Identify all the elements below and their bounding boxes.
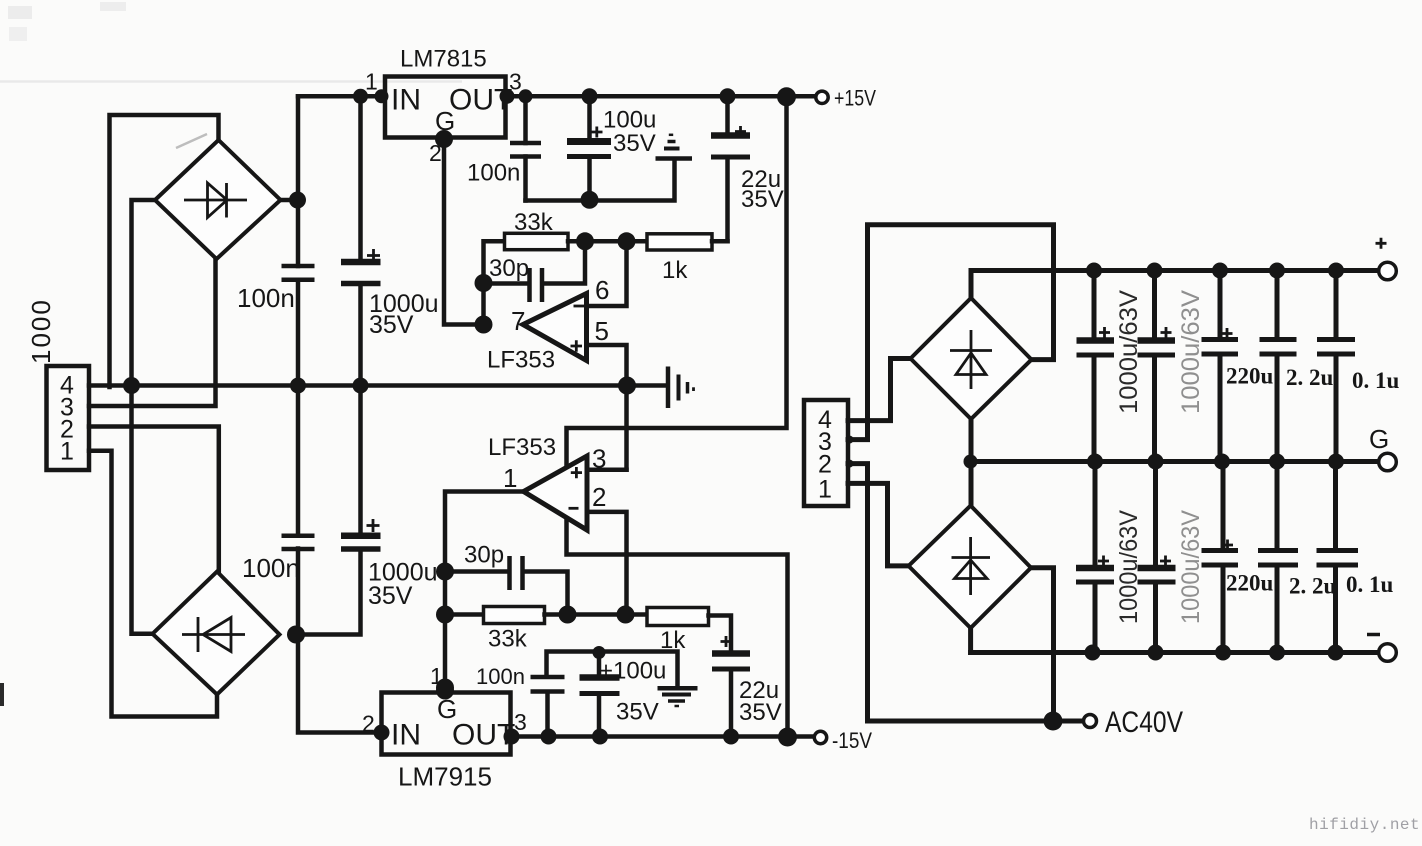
connector J1 box xyxy=(47,366,90,470)
svg-text:1000: 1000 xyxy=(26,298,56,364)
node U3 OUT pin xyxy=(504,729,520,745)
wire + rail xyxy=(971,268,1379,273)
wire bridge B2 to LM7915 IN xyxy=(298,635,382,733)
wire op-amp A pin5 to ground rail and pin3 of B xyxy=(587,345,627,470)
node OUT pin xyxy=(500,89,515,104)
node CB7 minus rail tap xyxy=(1148,645,1164,661)
svg-text:2: 2 xyxy=(592,482,606,512)
wire CB10 leads xyxy=(1333,462,1338,653)
wire op-amp B pin3 xyxy=(587,468,627,473)
svg-text:1000u/63V: 1000u/63V xyxy=(1115,510,1143,624)
svg-text:220u: 220u xyxy=(1226,571,1274,596)
capacitor C1 100n plates xyxy=(282,266,315,280)
capacitor CB6 plus sign xyxy=(1098,556,1109,567)
svg-text:G: G xyxy=(1369,424,1389,454)
svg-text:1: 1 xyxy=(60,438,74,466)
svg-text:1000u/63V: 1000u/63V xyxy=(1115,290,1143,414)
svg-text:1k: 1k xyxy=(662,257,688,284)
svg-text:35V: 35V xyxy=(368,582,413,610)
ground symbol inverted (bypass bus) xyxy=(656,156,693,161)
node 22u tap on -15V rail xyxy=(723,729,739,745)
diode inside B1 xyxy=(184,183,247,218)
wire bridge B4 bottom to minus rail xyxy=(968,628,973,653)
wire J1 pin1 to bridge B2 bottom corner xyxy=(89,451,217,717)
svg-text:2. 2u: 2. 2u xyxy=(1289,574,1337,599)
node 100u tap xyxy=(582,88,598,104)
svg-text:1: 1 xyxy=(365,69,378,95)
svg-text:LM7915: LM7915 xyxy=(398,762,492,792)
wire op-amp B output to LM7915 G xyxy=(445,492,524,693)
connector J2 box xyxy=(804,400,848,506)
capacitor CB1 1000u/63V plates xyxy=(1077,337,1115,344)
svg-text:30p: 30p xyxy=(489,255,529,282)
wire bridge B3 top corner to + rail xyxy=(969,271,974,299)
node CB9 minus rail tap xyxy=(1269,645,1285,661)
svg-text:35V: 35V xyxy=(369,311,414,339)
capacitor CB9 2.2u plates xyxy=(1258,551,1298,566)
svg-text:LF353: LF353 xyxy=(487,347,555,374)
svg-text:IN: IN xyxy=(391,84,421,117)
wire R1 to R2 xyxy=(568,239,647,244)
node C12 tap xyxy=(593,646,606,659)
wire bridge B4 right corner to AC40V node xyxy=(1031,568,1054,721)
svg-text:35V: 35V xyxy=(739,699,782,726)
wire op-amp B pin2 xyxy=(587,512,627,615)
node feedback 30p left xyxy=(475,274,493,292)
capacitor CB7 plus sign xyxy=(1160,556,1171,567)
wire CB3 leads xyxy=(1218,271,1223,462)
node R1-30p junction xyxy=(576,232,594,250)
svg-text:1000u/63V: 1000u/63V xyxy=(1177,290,1205,414)
terminal G xyxy=(1379,453,1397,471)
capacitor C7 30p plates xyxy=(510,556,523,590)
capacitor C5 22u leads xyxy=(725,96,730,241)
svg-text:2. 2u: 2. 2u xyxy=(1286,365,1334,390)
wire CB7 leads xyxy=(1153,462,1158,653)
svg-text:5: 5 xyxy=(595,316,609,346)
node IN pin xyxy=(375,89,389,103)
wire bypass bus U3 xyxy=(547,652,678,688)
wire R4 right to 22u branch xyxy=(709,616,732,652)
node U3 G junction upper xyxy=(436,679,454,697)
node supply loop tap on -15V rail xyxy=(778,728,797,747)
svg-text:35V: 35V xyxy=(616,699,659,726)
capacitor C8 22u plates xyxy=(712,650,750,657)
capacitor CB3 plus sign xyxy=(1222,328,1233,339)
terminal AC40V xyxy=(1084,715,1097,728)
wire U1 G pin down to op-amp output node xyxy=(444,138,484,325)
svg-text:2: 2 xyxy=(818,451,832,479)
svg-text:33k: 33k xyxy=(488,626,528,653)
wire R3 to R4 xyxy=(545,612,648,617)
wire ground rail xyxy=(89,383,667,388)
wire minus rail xyxy=(971,650,1379,655)
svg-text:35V: 35V xyxy=(741,186,784,213)
node 100n tap xyxy=(519,89,533,103)
node CB9 G rail tap xyxy=(1269,454,1285,470)
resistor R1 33k body xyxy=(505,233,569,249)
wire J2 pin1 to bridge B4 left corner xyxy=(848,483,909,566)
capacitor C11 100n plates xyxy=(531,677,565,692)
capacitor C2 plus sign xyxy=(367,249,380,262)
op-amp U2B minus sign xyxy=(569,507,579,510)
svg-text:220u: 220u xyxy=(1226,364,1274,389)
wire feedback left vertical xyxy=(484,241,505,324)
node J2 pin2 stub xyxy=(846,460,854,468)
ground symbol U3 bypass xyxy=(658,686,698,691)
label minus xyxy=(1367,633,1380,637)
node R3-C7 junction xyxy=(559,606,577,624)
wire bridge B2 right column xyxy=(296,386,301,635)
wire capacitor C2 leads xyxy=(358,96,363,385)
node CB8 G rail tap xyxy=(1214,454,1230,470)
svg-text:+100u: +100u xyxy=(599,658,666,685)
svg-text:1: 1 xyxy=(818,476,832,504)
wire J2 pin4 to bridge B3 left corner xyxy=(848,359,911,421)
capacitor C5 22u plates xyxy=(711,132,750,139)
wire J1 pin2 to bridge B2 top corner xyxy=(89,427,219,573)
node 22u tap xyxy=(720,88,736,104)
op-amp U2A minus sign xyxy=(574,305,585,308)
resistor R4 1k body xyxy=(647,608,709,626)
faint artifact dash above bridge xyxy=(176,134,207,148)
bridge rectifier B4 xyxy=(909,506,1032,628)
svg-text:7: 7 xyxy=(511,306,525,336)
capacitor CB5 0.1u plates xyxy=(1317,340,1355,355)
node R3 left xyxy=(436,606,454,624)
terminal +15V xyxy=(816,91,828,103)
node 100n tap on -15V rail xyxy=(541,729,557,745)
diode inside B4 xyxy=(952,537,991,595)
capacitor CB3 220u plates xyxy=(1202,340,1239,355)
node U1 G pin xyxy=(435,130,453,148)
svg-text:6: 6 xyxy=(595,275,609,305)
wire bridge B1 right corner node vertical xyxy=(280,96,298,266)
capacitor C12 100u plates xyxy=(580,674,620,681)
svg-text:-15V: -15V xyxy=(832,728,872,753)
capacitor C10 plus sign xyxy=(367,519,380,532)
capacitor C4 100u leads xyxy=(587,96,592,200)
node CB6 G rail tap xyxy=(1087,454,1103,470)
svg-text:+15V: +15V xyxy=(834,86,876,111)
svg-text:35V: 35V xyxy=(613,130,656,157)
node ground rail op-amp xyxy=(618,377,636,395)
node AC40V junction xyxy=(1044,712,1063,731)
capacitor C4 100u plates xyxy=(567,138,611,145)
regulator U3 LM7915 box xyxy=(382,693,511,755)
bridge rectifier B2 xyxy=(153,572,280,695)
wire J2 pin2 to AC40V xyxy=(848,464,1084,721)
wire -15V rail xyxy=(511,734,814,739)
node CB1 + rail tap xyxy=(1086,263,1102,279)
faint scan artifact line xyxy=(0,80,462,83)
wire CB6 leads xyxy=(1093,462,1098,653)
resistor R3 33k body xyxy=(484,607,545,624)
capacitor CB6 1000u/63V plates xyxy=(1076,565,1114,572)
wire R3 left lead xyxy=(445,612,484,617)
node 100u bottom xyxy=(581,191,599,209)
svg-text:LM7815: LM7815 xyxy=(400,46,487,73)
svg-text:1000u/63V: 1000u/63V xyxy=(1177,510,1205,624)
op-amp U2A plus sign xyxy=(571,340,583,351)
node CB10 minus rail tap xyxy=(1328,645,1344,661)
op-amp U2A triangle xyxy=(523,294,587,361)
terminal minus xyxy=(1379,644,1397,662)
svg-text:0. 1u: 0. 1u xyxy=(1346,572,1394,597)
capacitor CB7 1000u/63V plates xyxy=(1138,565,1176,572)
capacitor CB4 2.2u plates xyxy=(1260,340,1297,355)
capacitor C10 1000u plates xyxy=(341,533,381,540)
node bridge B2 right corner xyxy=(287,626,305,644)
faint corner smudges xyxy=(8,6,32,19)
capacitor C7 30p leads xyxy=(445,572,568,615)
bridge rectifier B3 xyxy=(911,298,1032,419)
capacitor CB8 plus sign xyxy=(1222,540,1233,551)
svg-text:IN: IN xyxy=(391,719,421,752)
capacitor C6 30p plates xyxy=(530,268,543,302)
terminal plus xyxy=(1379,262,1397,280)
capacitor CB2 plus sign xyxy=(1161,327,1172,338)
node J2 pin3 stub xyxy=(846,436,854,444)
capacitor C4 plus sign xyxy=(591,127,603,138)
wire CB2 leads xyxy=(1152,271,1157,462)
node CB6 minus rail tap xyxy=(1085,645,1101,661)
ground symbol main (right-facing) xyxy=(666,367,671,409)
wire bridge B1 top corner to ground rail xyxy=(110,115,219,387)
op-amp U2B triangle xyxy=(524,456,588,530)
svg-text:33k: 33k xyxy=(514,209,554,236)
capacitor CB2 1000u/63V plates xyxy=(1138,337,1176,344)
capacitor C9 100n plates xyxy=(282,536,315,549)
svg-text:100n: 100n xyxy=(467,160,520,187)
capacitor C3 100n leads xyxy=(523,96,528,200)
diode inside B2 xyxy=(182,617,245,652)
wire G rail xyxy=(971,459,1380,464)
node C2 rail junction xyxy=(353,378,369,394)
svg-text:0. 1u: 0. 1u xyxy=(1352,368,1400,393)
left edge scan sliver xyxy=(0,683,4,706)
capacitor C11 lower lead xyxy=(545,693,550,737)
svg-text:100n: 100n xyxy=(242,553,300,583)
wire AC vertical: bridge B1 left corner to rail to bridge B2 left corner xyxy=(132,200,156,634)
wire bypass ground bus xyxy=(526,162,675,201)
node G rail bridge tap xyxy=(964,455,978,469)
capacitor CB8 220u plates xyxy=(1202,551,1239,566)
node 100u tap on -15V rail xyxy=(592,729,608,745)
wire CB8 leads xyxy=(1221,462,1226,653)
terminal -15V xyxy=(814,731,826,743)
node rail-AC junction xyxy=(123,377,140,394)
node CB8 minus rail tap xyxy=(1215,645,1231,661)
node bridge B1 right corner xyxy=(289,192,306,209)
svg-text:hifidiy.net: hifidiy.net xyxy=(1309,816,1420,834)
node CB7 G rail tap xyxy=(1148,454,1164,470)
node IN line C2 tap xyxy=(353,89,368,104)
capacitor C8 plus sign xyxy=(721,636,732,647)
svg-text:3: 3 xyxy=(592,444,606,474)
bridge rectifier B1 xyxy=(155,140,281,259)
node CB10 G rail tap xyxy=(1328,454,1344,470)
svg-text:LF353: LF353 xyxy=(488,434,556,461)
node CB2 + rail tap xyxy=(1147,263,1163,279)
svg-text:AC40V: AC40V xyxy=(1105,706,1183,739)
resistor R2 1k body xyxy=(647,234,712,250)
op-amp U2B plus sign xyxy=(571,467,582,478)
node U3 IN pin xyxy=(374,725,390,741)
regulator U1 LM7815 box xyxy=(385,77,506,138)
node U3 G pin xyxy=(436,682,454,700)
node R4-pin2 junction xyxy=(617,606,635,624)
svg-text:2: 2 xyxy=(362,711,375,737)
wire J2 pin3 loop to bridge B3 right corner xyxy=(848,225,1054,440)
capacitor C2 1000u plates xyxy=(341,259,381,266)
node C1 rail junction xyxy=(290,378,306,394)
wire to LM7815 IN xyxy=(298,94,385,99)
node CB3 + rail tap xyxy=(1212,263,1228,279)
wire op-amp A pin6 xyxy=(587,241,627,306)
wire bridge B3 bottom to bridge B4 top xyxy=(969,419,974,506)
wire CB5 leads xyxy=(1334,271,1339,462)
wire CB4 leads xyxy=(1275,271,1280,462)
capacitor C12 100u leads xyxy=(597,653,602,737)
node C7 left xyxy=(436,563,454,581)
svg-text:100n: 100n xyxy=(476,664,525,689)
wire CB9 leads xyxy=(1275,462,1280,653)
capacitor C5 plus sign xyxy=(735,126,746,137)
svg-text:1: 1 xyxy=(503,463,517,493)
wire capacitor C1 lower lead xyxy=(296,280,301,386)
node R2-pin6 junction xyxy=(618,232,636,250)
capacitor CB10 0.1u plates xyxy=(1317,551,1359,566)
capacitor C10 1000u leads xyxy=(298,386,361,635)
capacitor C8 lower lead xyxy=(729,671,734,737)
node CB4 + rail tap xyxy=(1269,263,1285,279)
svg-text:30p: 30p xyxy=(464,542,504,569)
capacitor C6 30p leads xyxy=(484,241,586,283)
svg-text:100n: 100n xyxy=(237,283,295,313)
capacitor C3 100n plates xyxy=(510,143,541,157)
node op-amp output junction xyxy=(475,316,493,334)
wire +15V rail xyxy=(506,94,817,99)
node power-branch tap xyxy=(777,87,796,106)
wire J1 pin3 to bridge B1 bottom corner xyxy=(89,257,216,406)
wire CB1 leads xyxy=(1092,271,1097,462)
wire R2 right to 22u branch xyxy=(712,239,728,244)
diode inside B3 xyxy=(950,330,992,389)
node CB5 + rail tap xyxy=(1328,263,1344,279)
label plus xyxy=(1376,238,1387,249)
capacitor CB1 plus sign xyxy=(1099,327,1110,338)
wire op-amp supply loop xyxy=(567,96,788,737)
